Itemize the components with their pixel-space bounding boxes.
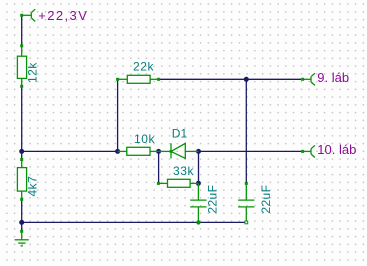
diode D1 <box>159 143 199 158</box>
wire: vertical from 22k left pin down to main row <box>117 79 119 151</box>
svg-text:10. láb: 10. láb <box>317 142 356 157</box>
svg-text:22k: 22k <box>133 60 155 74</box>
wire: bottom rail right segment to C2 bottom pin <box>198 221 246 223</box>
resistor R 22k <box>118 75 159 83</box>
ground symbol <box>15 231 29 246</box>
pin end open square C2 bottom <box>245 221 248 224</box>
node: junction left rail x main row <box>19 149 24 154</box>
resistor R 12k <box>17 46 26 87</box>
terminal pin 9.lab <box>303 73 315 85</box>
svg-text:4k7: 4k7 <box>26 176 40 197</box>
node: junction 22k row x C2 branch <box>244 77 249 82</box>
node: junction diode anode x 33k right branch <box>196 149 201 154</box>
wire: vertical C2 branch from 22k row down to C2 top pin <box>245 79 247 183</box>
wire: main row right segment from diode node to 10.lab terminal <box>199 150 302 152</box>
svg-text:33k: 33k <box>173 164 195 178</box>
wire: left rail from R 12k bottom to main row <box>21 86 23 151</box>
node: junction 33k right pin x C1 top <box>196 181 201 186</box>
wire: bottom rail left segment <box>22 221 199 223</box>
wire: left rail main row to R 4k7 top pin <box>21 151 23 159</box>
wire: left rail R 4k7 bottom to bottom rail <box>21 199 23 222</box>
svg-text:D1: D1 <box>172 127 188 141</box>
svg-text:22uF: 22uF <box>205 185 219 214</box>
svg-text:10k: 10k <box>134 132 156 146</box>
wire: 22k row from C2 branch node to 9.lab terminal <box>246 78 301 80</box>
capacitor C2 22uF <box>238 183 254 222</box>
resistor R 4k7 <box>17 160 26 200</box>
resistor R 10k <box>118 147 159 155</box>
supply terminal +22,3V <box>22 9 35 21</box>
wire: main row left segment (node to 10k left pin) <box>22 150 118 152</box>
svg-text:12k: 12k <box>26 62 40 83</box>
node: junction left rail x bottom rail <box>19 220 24 225</box>
wire: ground stub below bottom rail junction <box>21 222 23 231</box>
wire: 22k row from right pin to C2 branch node <box>159 78 247 80</box>
wire: vertical from main row down to 33k left pin <box>158 151 160 183</box>
node: junction C1 bottom on bottom rail <box>196 220 200 224</box>
svg-text:22uF: 22uF <box>259 185 273 214</box>
node: junction 10k right pin x 33k branch <box>156 149 161 154</box>
node: junction main row x 22k branch <box>115 149 120 154</box>
svg-text:+22,3V: +22,3V <box>38 8 88 23</box>
wire: left rail top from +22,3V node to R 12k top pin <box>21 15 23 46</box>
terminal pin 10.lab <box>303 145 315 157</box>
capacitor C1 22uF <box>190 183 206 222</box>
svg-text:9. láb: 9. láb <box>317 70 349 85</box>
resistor R 33k <box>158 179 198 187</box>
wire: vertical from diode node down to 33k right pin / C1 top <box>198 151 200 183</box>
